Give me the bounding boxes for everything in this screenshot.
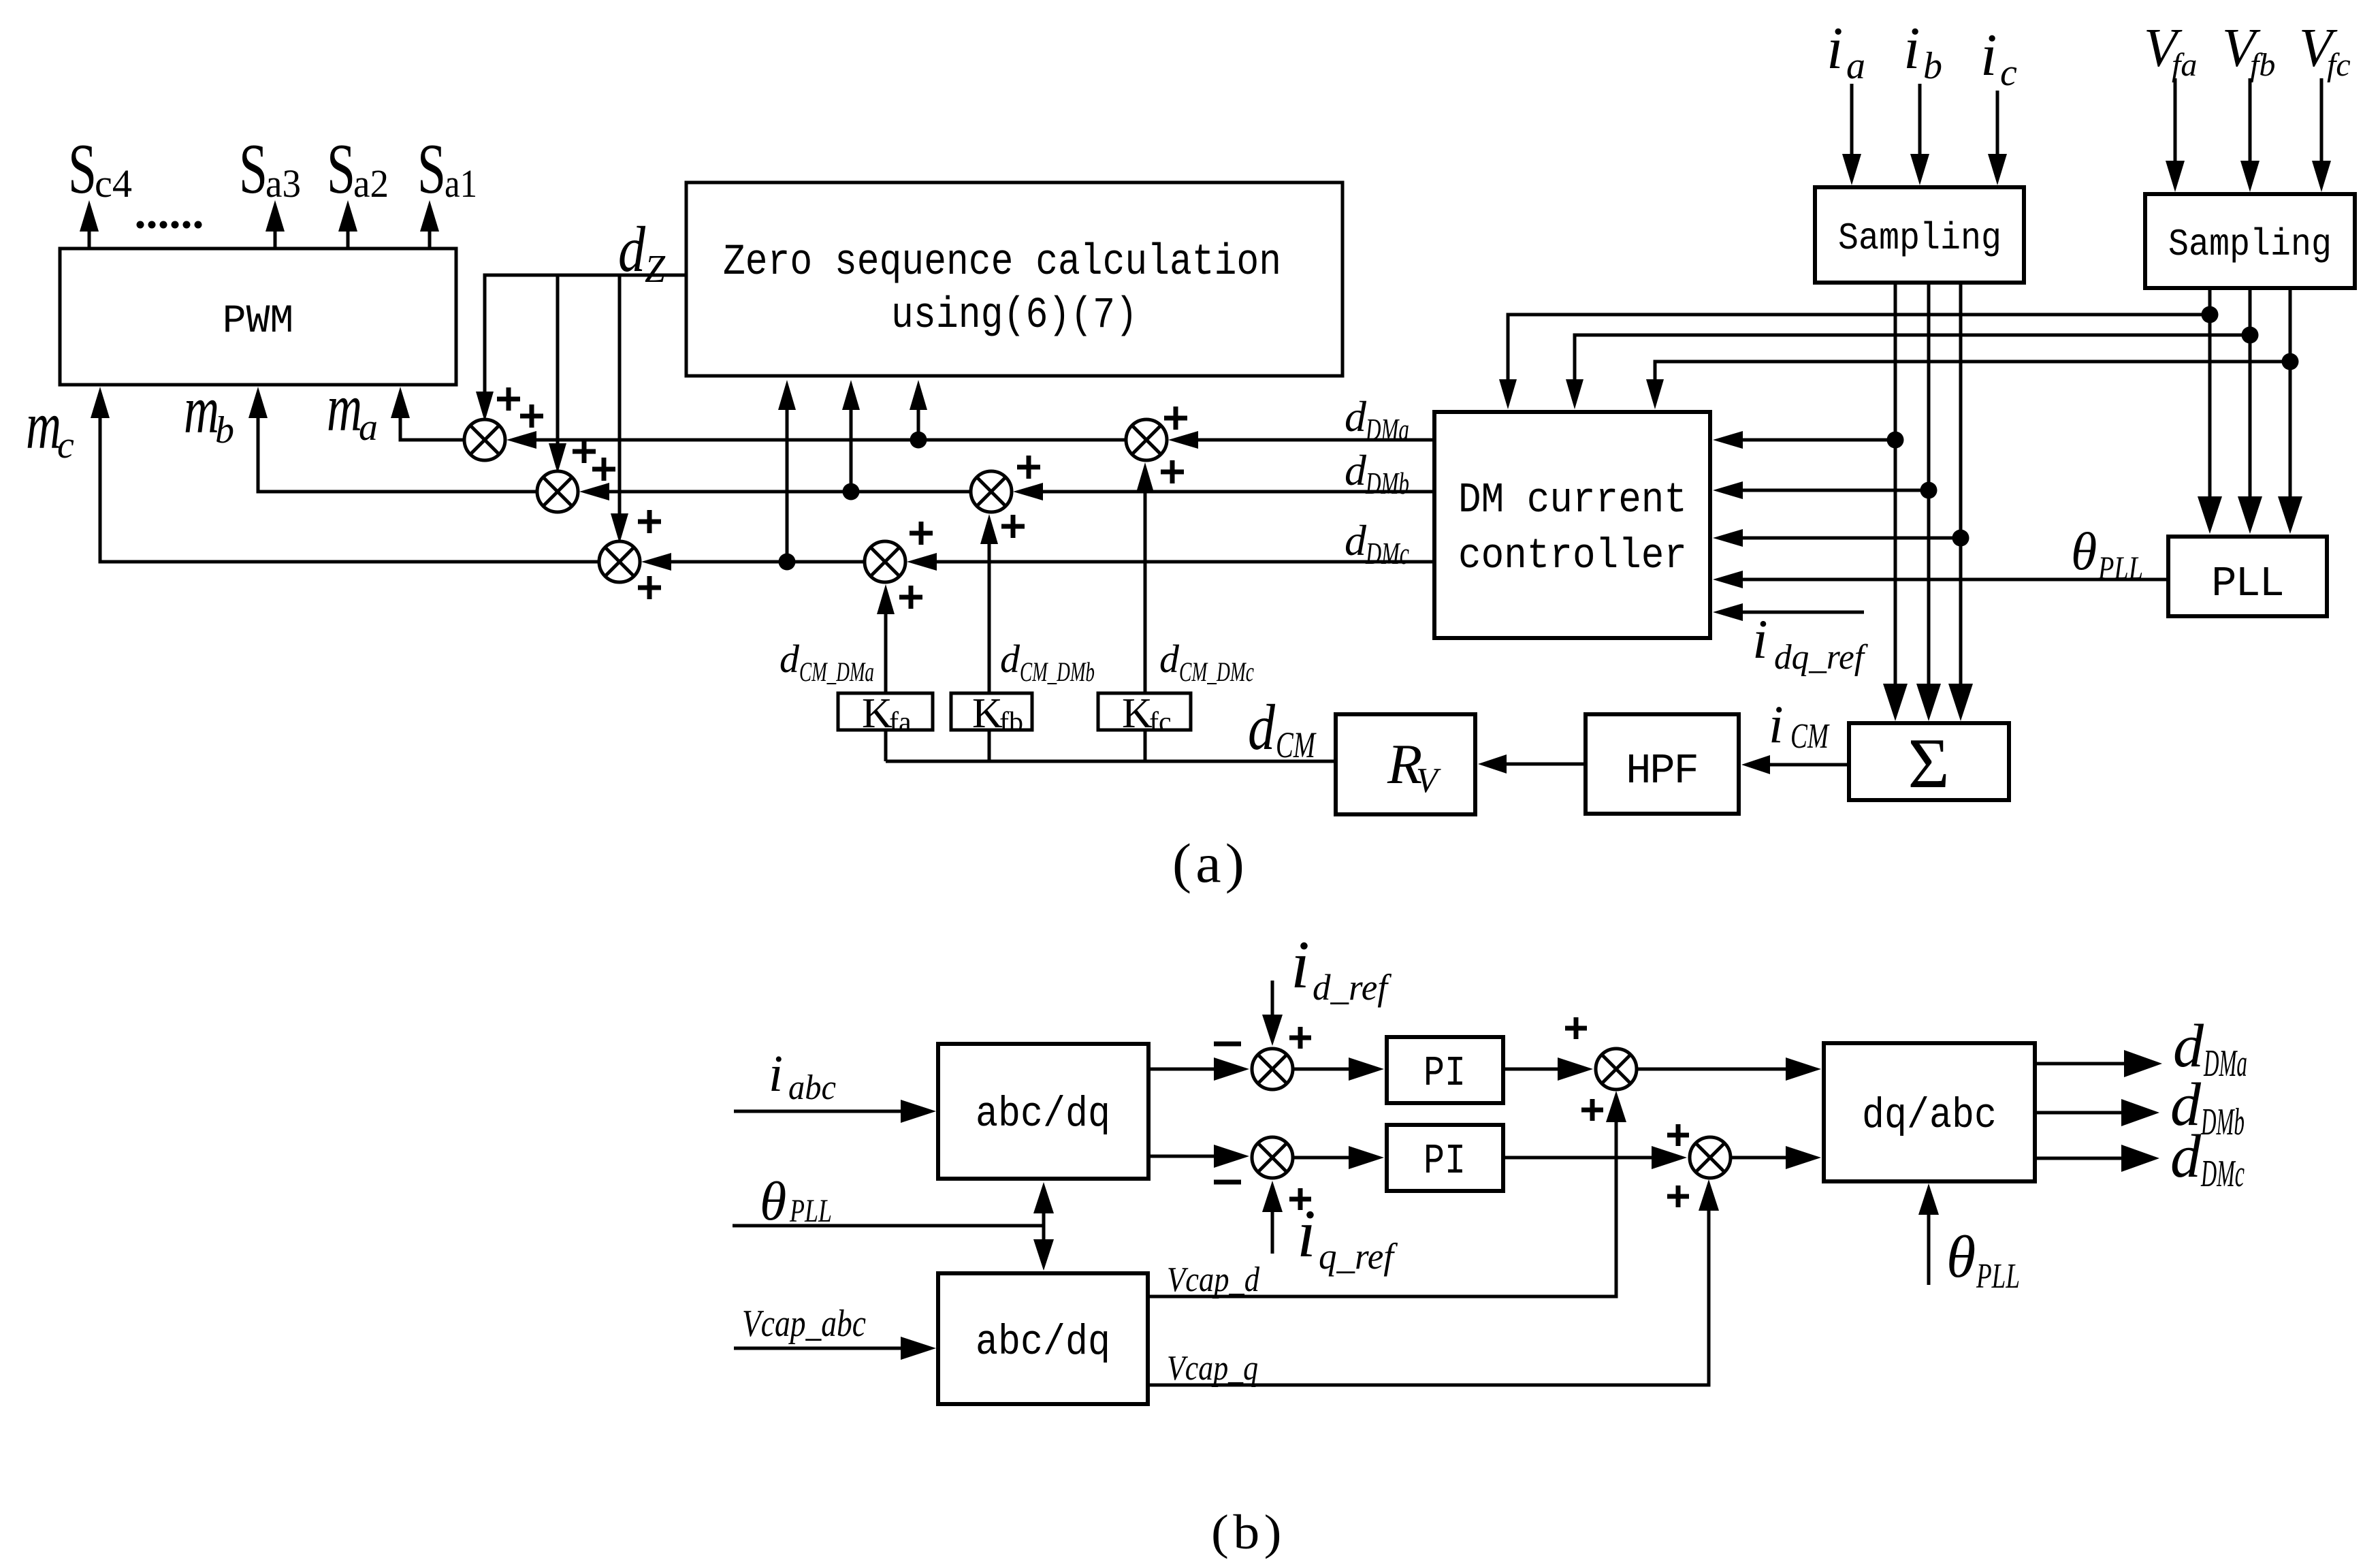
svg-text:i: i bbox=[769, 1045, 783, 1102]
wire V_fa to DM controller top bbox=[1499, 315, 2210, 409]
svg-text:Sampling: Sampling bbox=[1838, 217, 2001, 260]
svg-text:θ: θ bbox=[1946, 1224, 1976, 1290]
svg-text:d: d bbox=[618, 213, 645, 285]
plus sign C3 bottom bbox=[1581, 1099, 1603, 1121]
label d_CM_DMb bbox=[1000, 637, 1095, 687]
svg-text:PI: PI bbox=[1424, 1137, 1466, 1185]
arrow i_d_ref into C1 bbox=[1262, 981, 1283, 1046]
svg-text:PLL: PLL bbox=[2211, 560, 2283, 608]
svg-text:c: c bbox=[57, 424, 74, 466]
arrow i_b into Sampling bbox=[1910, 84, 1929, 185]
wire K_fc to adder B1 bbox=[1136, 462, 1154, 761]
svg-text:i: i bbox=[1980, 22, 1997, 89]
label Vcap_q bbox=[1167, 1349, 1258, 1388]
label theta_PLL bbox=[2071, 522, 2143, 586]
label d_CM_DMa bbox=[779, 637, 874, 687]
wire PI2 to C4 bbox=[1503, 1146, 1687, 1169]
svg-text:abc/dq: abc/dq bbox=[976, 1318, 1110, 1367]
arrow i_c into Sampling bbox=[1988, 91, 2007, 185]
plus sign B2 bottom bbox=[1001, 515, 1025, 538]
junction dot i_b line bbox=[1920, 482, 1937, 499]
wire m_b bbox=[248, 387, 537, 492]
arrow V_fb into Sampling bbox=[2240, 78, 2260, 192]
svg-text:m: m bbox=[184, 372, 219, 447]
label theta_PLL under dq/abc bbox=[1946, 1224, 2020, 1296]
svg-text:dq_ref: dq_ref bbox=[1774, 638, 1868, 677]
svg-text:b: b bbox=[215, 409, 234, 451]
wire V_fb sampled line bbox=[2238, 288, 2262, 534]
svg-text:d: d bbox=[1159, 637, 1180, 681]
plus sign B1 top bbox=[1164, 407, 1187, 430]
wire output d_DMa bbox=[2035, 1050, 2162, 1077]
svg-text:HPF: HPF bbox=[1626, 747, 1698, 795]
block PLL bbox=[2168, 537, 2327, 616]
adder A1 (m_a sum) bbox=[464, 419, 505, 460]
plus sign A1 right bbox=[520, 404, 543, 428]
wire V_fb to DM controller top bbox=[1566, 335, 2250, 409]
label output d_DMb bbox=[2170, 1071, 2245, 1143]
wire theta_PLL part b bbox=[733, 1224, 1044, 1228]
wire i_b sampled line bbox=[1916, 283, 1941, 721]
svg-text:m: m bbox=[26, 387, 61, 463]
svg-text:S: S bbox=[327, 129, 355, 208]
svg-text:S: S bbox=[239, 129, 268, 208]
label d_DMb bbox=[1345, 446, 1409, 500]
svg-text:a1: a1 bbox=[445, 161, 477, 206]
plus sign B3 top bbox=[910, 522, 933, 545]
label i_abc bbox=[769, 1045, 836, 1107]
wire d_Z bbox=[485, 275, 686, 381]
svg-text:K: K bbox=[862, 690, 892, 737]
svg-text:a3: a3 bbox=[266, 161, 301, 206]
wire K_fa to adder B3 bbox=[877, 584, 895, 761]
junction dot i_c line bbox=[1952, 530, 1969, 547]
block R_V bbox=[1336, 714, 1475, 814]
svg-text:DMb: DMb bbox=[2200, 1101, 2245, 1143]
label theta_PLL part b bbox=[760, 1172, 832, 1232]
svg-text:PLL: PLL bbox=[789, 1193, 832, 1229]
block K_fa bbox=[838, 690, 933, 738]
svg-text:fc: fc bbox=[2327, 47, 2351, 83]
ellipsis dots bbox=[137, 221, 202, 229]
label m_b bbox=[184, 372, 234, 451]
minus sign C2 bbox=[1214, 1180, 1241, 1185]
svg-text:DMa: DMa bbox=[1365, 412, 1409, 447]
svg-text:θ: θ bbox=[760, 1172, 786, 1232]
wire d_DMc row B3 to A3 bbox=[641, 553, 865, 571]
svg-text:Vcap_d: Vcap_d bbox=[1167, 1260, 1260, 1299]
plus sign C3 top bbox=[1565, 1017, 1587, 1039]
label Vcap_d bbox=[1167, 1260, 1260, 1299]
junction dot d_DMb riser bbox=[843, 483, 860, 500]
svg-text:a: a bbox=[1846, 45, 1865, 87]
svg-text:abc/dq: abc/dq bbox=[976, 1090, 1110, 1139]
label d_DMc bbox=[1345, 516, 1409, 571]
multiplier C4 (q channel) bbox=[1690, 1137, 1731, 1178]
wire d_DMa row DM to B1 bbox=[1168, 431, 1434, 449]
svg-text:d: d bbox=[1345, 446, 1367, 494]
label m_c bbox=[26, 387, 74, 466]
label i_dq_ref bbox=[1752, 608, 1868, 677]
block Zero sequence calculation bbox=[686, 182, 1342, 376]
svg-text:Sampling: Sampling bbox=[2168, 223, 2332, 266]
block K_fc bbox=[1098, 690, 1191, 738]
adder B3 (d_DMc + d_CM_DMa) bbox=[865, 541, 905, 582]
svg-text:V: V bbox=[1416, 761, 1441, 800]
wire PWM output S_c4 bbox=[80, 200, 99, 249]
label output d_DMa bbox=[2173, 1013, 2247, 1085]
svg-text:Zero sequence calculation: Zero sequence calculation bbox=[723, 238, 1281, 287]
plus sign C4 bottom bbox=[1667, 1185, 1689, 1207]
wire i_c sampled line bbox=[1948, 283, 1973, 721]
svg-text:a2: a2 bbox=[353, 161, 389, 206]
wire d_Z branch to adder A3 bbox=[611, 275, 628, 543]
svg-text:d: d bbox=[1345, 392, 1367, 441]
svg-text:DMb: DMb bbox=[1365, 466, 1409, 500]
caption (b) bbox=[1211, 1505, 1286, 1559]
label d_CM_DMc bbox=[1159, 637, 1254, 687]
wire PWM output S_a2 bbox=[338, 200, 357, 249]
wire C4 to dq/abc bbox=[1731, 1146, 1821, 1169]
block K_fb bbox=[951, 690, 1032, 738]
wire riser d_DMb to Zero box bbox=[842, 380, 860, 492]
label i_c bbox=[1980, 22, 2017, 94]
block DM current controller bbox=[1434, 412, 1710, 638]
svg-text:fb: fb bbox=[999, 707, 1023, 738]
svg-text:CM_DMb: CM_DMb bbox=[1020, 656, 1095, 687]
svg-text:fc: fc bbox=[1149, 707, 1172, 738]
block abc/dq (voltages) bbox=[938, 1273, 1148, 1404]
block PI1 bbox=[1387, 1037, 1503, 1103]
block Sampling (currents) bbox=[1815, 187, 2024, 283]
adder B2 (d_DMb + d_CM_DMb) bbox=[971, 471, 1012, 512]
svg-text:CM_DMc: CM_DMc bbox=[1179, 656, 1254, 687]
svg-text:d: d bbox=[779, 637, 800, 681]
wire C2 to PI2 bbox=[1293, 1146, 1384, 1169]
label S_c4 bbox=[68, 129, 132, 208]
block Sigma bbox=[1849, 723, 2009, 803]
wire theta_PLL to DM controller bbox=[1713, 571, 2168, 588]
label i_b bbox=[1903, 16, 1942, 87]
svg-text:i: i bbox=[1752, 608, 1768, 670]
wire d_CM bbox=[886, 760, 1336, 763]
junction dot V_fc line bbox=[2282, 353, 2299, 370]
junction dot V_fb line bbox=[2242, 327, 2259, 344]
svg-text:PI: PI bbox=[1424, 1049, 1466, 1098]
wire Vcap_q to C4 bbox=[1148, 1179, 1719, 1385]
svg-text:m: m bbox=[327, 370, 362, 445]
wire i_dq_ref into DM controller bbox=[1713, 603, 1864, 621]
wire output d_DMb bbox=[2035, 1099, 2159, 1126]
label S_a1 bbox=[417, 129, 477, 208]
svg-text:S: S bbox=[68, 129, 97, 208]
svg-text:DMc: DMc bbox=[2200, 1153, 2245, 1195]
svg-text:d_ref: d_ref bbox=[1313, 967, 1392, 1008]
wire i_a into DM controller bbox=[1713, 431, 1895, 449]
block dq/abc bbox=[1824, 1043, 2035, 1181]
plus sign B1 bottom bbox=[1161, 460, 1184, 483]
junction dot V_fa line bbox=[2202, 306, 2219, 323]
block PI2 bbox=[1387, 1125, 1503, 1191]
wire V_fc sampled line bbox=[2278, 288, 2302, 534]
svg-text:b: b bbox=[1923, 45, 1942, 87]
svg-text:d: d bbox=[1345, 516, 1367, 564]
label S_a2 bbox=[327, 129, 389, 208]
svg-text:i: i bbox=[1769, 695, 1784, 754]
wire V_fc to DM controller top bbox=[1646, 362, 2290, 409]
svg-text:(b): (b) bbox=[1211, 1505, 1286, 1559]
svg-text:DMa: DMa bbox=[2203, 1042, 2247, 1085]
svg-text:(a): (a) bbox=[1172, 832, 1249, 894]
plus sign A2 right bbox=[592, 458, 615, 481]
svg-text:fa: fa bbox=[889, 707, 912, 738]
plus sign C4 left bbox=[1667, 1124, 1689, 1146]
wire d_Z branch to adder A2 bbox=[549, 275, 566, 473]
svg-text:c4: c4 bbox=[95, 161, 132, 206]
svg-text:DM current: DM current bbox=[1458, 476, 1687, 524]
wire K_fb to adder B2 bbox=[980, 514, 998, 761]
plus sign A1 top bbox=[497, 387, 520, 411]
svg-text:fb: fb bbox=[2250, 47, 2275, 83]
double arrow theta_PLL to abc/dq boxes bbox=[1033, 1182, 1054, 1271]
block abc/dq (currents) bbox=[938, 1044, 1148, 1179]
svg-text:fa: fa bbox=[2172, 47, 2197, 83]
svg-text:PWM: PWM bbox=[223, 300, 293, 344]
wire HPF to R_V bbox=[1478, 754, 1586, 774]
label d_Z bbox=[618, 213, 666, 291]
wire d_DMc row DM to B3 bbox=[907, 553, 1434, 571]
junction dot d_DMc riser bbox=[779, 554, 796, 571]
svg-text:Σ: Σ bbox=[1908, 723, 1949, 803]
svg-text:d: d bbox=[1248, 691, 1275, 763]
svg-text:c: c bbox=[2000, 52, 2017, 94]
svg-text:a: a bbox=[359, 407, 378, 449]
block Sampling (voltages) bbox=[2145, 194, 2355, 288]
svg-text:PLL: PLL bbox=[2097, 550, 2143, 586]
block PWM bbox=[60, 249, 456, 385]
plus sign A2 top bbox=[573, 440, 596, 463]
svg-text:i: i bbox=[1903, 16, 1920, 82]
label d_DMa bbox=[1345, 392, 1409, 447]
junction dot d_DMa riser bbox=[910, 432, 927, 449]
plus sign A3 top bbox=[638, 510, 661, 533]
svg-text:CM: CM bbox=[1276, 725, 1317, 765]
wire output d_DMc bbox=[2035, 1145, 2159, 1172]
wire Sigma to HPF (i_CM) bbox=[1741, 755, 1849, 774]
wire C1 to PI1 bbox=[1293, 1057, 1384, 1081]
label V_fa bbox=[2144, 18, 2197, 83]
wire i_c into DM controller bbox=[1713, 529, 1961, 547]
wire PWM output S_a3 bbox=[266, 200, 285, 249]
wire PI1 to C3 bbox=[1503, 1057, 1593, 1081]
svg-text:i: i bbox=[1291, 927, 1310, 1002]
adder B1 (d_DMa + d_CM_DMc) bbox=[1126, 419, 1167, 460]
svg-text:K: K bbox=[1122, 690, 1153, 737]
label output d_DMc bbox=[2170, 1123, 2245, 1195]
svg-text:dq/abc: dq/abc bbox=[1862, 1092, 1997, 1140]
arrow i_abc into abc/dq bbox=[734, 1100, 936, 1123]
junction dot i_a line bbox=[1887, 432, 1904, 449]
label i_q_ref bbox=[1297, 1196, 1398, 1277]
wire riser d_DMa to Zero box bbox=[910, 380, 927, 440]
wire i_a sampled line bbox=[1883, 283, 1908, 721]
arrow i_a into Sampling bbox=[1842, 84, 1861, 185]
label i_CM bbox=[1769, 695, 1830, 756]
arrow i_q_ref into C2 bbox=[1262, 1181, 1283, 1254]
svg-text:using(6)(7): using(6)(7) bbox=[891, 291, 1138, 340]
arrow V_fa into Sampling bbox=[2166, 78, 2185, 192]
wire PWM output S_a1 bbox=[420, 200, 439, 249]
svg-text:Z: Z bbox=[645, 246, 666, 291]
adder C1 (i_d sum) bbox=[1252, 1049, 1293, 1089]
label d_CM bbox=[1248, 691, 1317, 765]
label i_a bbox=[1827, 16, 1865, 87]
plus sign B3 bottom bbox=[899, 586, 922, 609]
wire V_fa sampled line bbox=[2198, 288, 2222, 534]
wire d_DMa row B1 to A1 bbox=[506, 431, 1126, 449]
svg-text:PLL: PLL bbox=[1976, 1257, 2020, 1296]
adder A2 (m_b sum) bbox=[537, 471, 578, 512]
label V_fb bbox=[2222, 18, 2275, 83]
svg-text:S: S bbox=[417, 129, 446, 208]
wire C3 to dq/abc bbox=[1637, 1057, 1821, 1081]
svg-text:q_ref: q_ref bbox=[1319, 1236, 1398, 1277]
plus sign C2 bbox=[1289, 1188, 1311, 1210]
label Vcap_abc bbox=[742, 1303, 866, 1345]
svg-text:DMc: DMc bbox=[1365, 536, 1409, 571]
svg-text:controller: controller bbox=[1458, 532, 1687, 580]
svg-text:Vcap_q: Vcap_q bbox=[1167, 1349, 1258, 1388]
caption (a) bbox=[1172, 832, 1249, 894]
minus sign C1 bbox=[1214, 1042, 1241, 1047]
wire m_c bbox=[91, 387, 599, 562]
label m_a bbox=[327, 370, 378, 449]
block HPF bbox=[1586, 714, 1739, 814]
svg-text:abc: abc bbox=[788, 1068, 836, 1107]
adder A3 (m_c sum) bbox=[599, 541, 640, 582]
wire riser d_DMc to Zero box bbox=[778, 380, 796, 562]
svg-text:Vcap_abc: Vcap_abc bbox=[742, 1303, 866, 1345]
svg-text:d: d bbox=[2170, 1123, 2202, 1190]
wire abc/dq to C2 bbox=[1148, 1145, 1249, 1168]
plus sign C1 bbox=[1289, 1027, 1311, 1049]
plus sign B2 top bbox=[1017, 456, 1040, 479]
wire abc/dq to C1 bbox=[1148, 1057, 1249, 1081]
arrow theta_PLL into dq/abc bbox=[1918, 1183, 1939, 1285]
wire d_Z branch to adder A1 bbox=[476, 381, 494, 421]
multiplier C3 (d channel) bbox=[1596, 1049, 1637, 1089]
plus sign A3 bottom bbox=[638, 576, 661, 599]
wire d_DMb row DM to B2 bbox=[1013, 483, 1434, 500]
label V_fc bbox=[2299, 18, 2351, 83]
svg-text:d: d bbox=[2173, 1013, 2204, 1080]
wire i_b into DM controller bbox=[1713, 481, 1929, 499]
svg-text:K: K bbox=[972, 690, 1003, 737]
svg-text:d: d bbox=[1000, 637, 1020, 681]
arrow V_fc into Sampling bbox=[2312, 78, 2331, 192]
svg-text:θ: θ bbox=[2071, 522, 2097, 581]
adder C2 (i_q sum) bbox=[1252, 1137, 1293, 1178]
wire d_DMb row B2 to A2 bbox=[579, 483, 971, 500]
arrow Vcap_abc into abc/dq bbox=[734, 1337, 936, 1360]
svg-text:i: i bbox=[1827, 16, 1843, 82]
label S_a3 bbox=[239, 129, 301, 208]
svg-text:CM_DMa: CM_DMa bbox=[799, 656, 874, 687]
wire m_a bbox=[391, 387, 464, 440]
wire Vcap_d to C3 bbox=[1148, 1091, 1626, 1296]
svg-text:CM: CM bbox=[1790, 717, 1830, 756]
label i_d_ref bbox=[1291, 927, 1392, 1008]
